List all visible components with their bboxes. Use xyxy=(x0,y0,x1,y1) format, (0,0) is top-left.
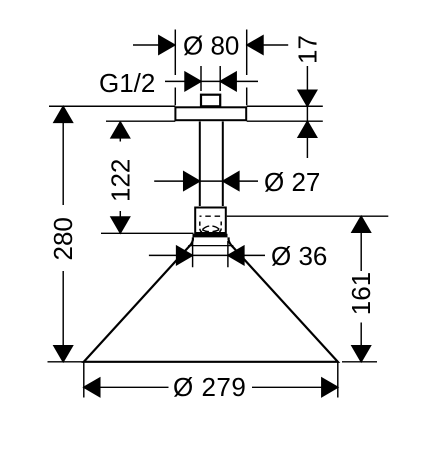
dim G1/2 arrows and line xyxy=(165,72,258,91)
dim 161 xyxy=(352,216,371,361)
dim 122 xyxy=(111,122,130,233)
pipe xyxy=(200,122,223,207)
lens detail xyxy=(202,226,219,231)
svg-text:Ø 279: Ø 279 xyxy=(173,372,246,402)
dim Ø 279 xyxy=(84,378,338,397)
svg-text:G1/2: G1/2 xyxy=(99,68,155,98)
dim Ø 80 xyxy=(133,36,288,55)
thick bar xyxy=(193,234,228,238)
svg-text:Ø 80: Ø 80 xyxy=(183,31,239,61)
svg-text:Ø 27: Ø 27 xyxy=(264,167,320,197)
nipple G1/2 connector xyxy=(201,95,220,107)
dim G1/2 extension lines xyxy=(201,66,220,91)
cone body xyxy=(84,237,338,361)
hidden dashed line in block xyxy=(200,215,223,217)
122 bottom extension line xyxy=(101,232,194,234)
dim 280 xyxy=(54,106,73,361)
cone shoulder line xyxy=(188,245,233,247)
connector block xyxy=(195,208,226,234)
dim Ø 279 extension lines xyxy=(84,363,338,398)
dim Ø 36 xyxy=(149,246,265,265)
svg-text:Ø 36: Ø 36 xyxy=(271,241,327,271)
ceiling line xyxy=(49,105,323,107)
svg-text:161: 161 xyxy=(346,272,376,315)
dim 17 xyxy=(298,66,317,158)
dim Ø 80 extension lines xyxy=(175,30,246,106)
svg-text:280: 280 xyxy=(48,217,78,260)
svg-text:122: 122 xyxy=(105,159,135,202)
161 top extension line xyxy=(227,215,388,217)
flange bottom extension line xyxy=(106,120,323,122)
bottom rim extension lines xyxy=(48,361,378,363)
dim Ø 27 xyxy=(154,172,258,191)
svg-text:17: 17 xyxy=(293,35,323,64)
dim Ø 36 extension lines xyxy=(193,241,228,267)
dashed cup detail xyxy=(200,222,221,233)
flange xyxy=(175,107,246,120)
